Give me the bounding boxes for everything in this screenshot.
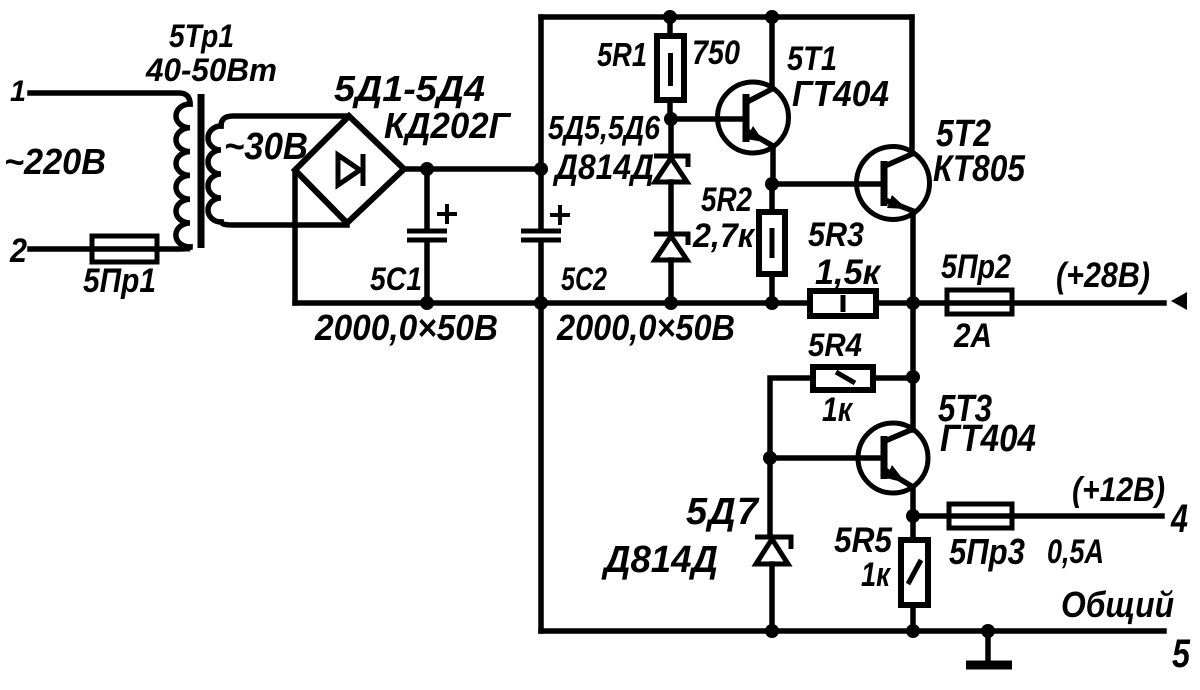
svg-text:2,7к: 2,7к bbox=[692, 217, 756, 255]
svg-text:~220В: ~220В bbox=[4, 141, 106, 182]
svg-text:1к: 1к bbox=[861, 556, 891, 594]
svg-text:750: 750 bbox=[692, 34, 740, 72]
svg-text:5С1: 5С1 bbox=[370, 261, 422, 297]
svg-text:5R4: 5R4 bbox=[808, 327, 862, 363]
svg-text:5R3: 5R3 bbox=[808, 216, 864, 254]
svg-text:(+12В): (+12В) bbox=[1072, 471, 1165, 509]
svg-text:ГТ404: ГТ404 bbox=[940, 418, 1036, 460]
svg-text:5Пр3: 5Пр3 bbox=[949, 531, 1025, 572]
svg-text:5R1: 5R1 bbox=[597, 36, 647, 73]
svg-text:1к: 1к bbox=[822, 391, 853, 429]
svg-text:5R2: 5R2 bbox=[701, 181, 752, 219]
svg-text:5Пр1: 5Пр1 bbox=[83, 262, 156, 300]
svg-text:5Д5,5Д6: 5Д5,5Д6 bbox=[548, 109, 661, 146]
svg-text:40-50Вт: 40-50Вт bbox=[145, 52, 277, 88]
svg-text:Общий: Общий bbox=[1061, 584, 1174, 625]
svg-text:~30В: ~30В bbox=[224, 126, 308, 168]
svg-text:4: 4 bbox=[1170, 497, 1188, 541]
svg-text:КТ805: КТ805 bbox=[933, 148, 1026, 189]
svg-text:0,5А: 0,5А bbox=[1047, 533, 1104, 571]
svg-text:Д814Д: Д814Д bbox=[552, 148, 654, 187]
svg-text:1: 1 bbox=[10, 75, 26, 108]
svg-text:5R5: 5R5 bbox=[834, 521, 892, 560]
svg-text:2: 2 bbox=[9, 232, 27, 270]
svg-text:2000,0×50В: 2000,0×50В bbox=[556, 307, 735, 348]
svg-text:5Д1-5Д4: 5Д1-5Д4 bbox=[334, 68, 485, 109]
svg-text:(+28В): (+28В) bbox=[1056, 256, 1150, 295]
svg-text:КД202Г: КД202Г bbox=[384, 105, 512, 146]
svg-text:5С2: 5С2 bbox=[561, 261, 607, 297]
svg-text:5Д7: 5Д7 bbox=[686, 491, 760, 533]
svg-text:Д814Д: Д814Д bbox=[601, 539, 718, 581]
svg-text:2000,0×50В: 2000,0×50В bbox=[314, 307, 498, 348]
svg-text:5Пр2: 5Пр2 bbox=[941, 248, 1011, 286]
svg-text:2А: 2А bbox=[953, 317, 992, 355]
svg-text:5: 5 bbox=[1172, 632, 1191, 676]
svg-text:ГТ404: ГТ404 bbox=[792, 73, 889, 114]
svg-text:1,5к: 1,5к bbox=[815, 253, 882, 292]
svg-text:5Тр1: 5Тр1 bbox=[169, 18, 234, 54]
